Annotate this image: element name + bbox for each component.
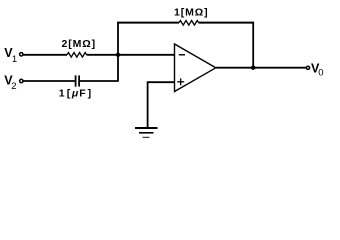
node V1 input terminal (20, 53, 23, 56)
resistor R1 zigzag (67, 53, 87, 58)
op-amp U1 minus sign (179, 54, 185, 56)
svg-text:1: 1 (12, 54, 17, 65)
wire riser node A up to feedback and down to capacitor (117, 23, 119, 82)
node output junction dot (251, 66, 255, 70)
wire op-amp output to V0 terminal (216, 67, 306, 69)
svg-text:0: 0 (318, 68, 323, 79)
node V0 label (311, 61, 324, 78)
svg-text:1: 1 (59, 88, 65, 100)
capacitor C1 left plate (75, 75, 77, 86)
node V1 label (4, 46, 17, 65)
wire feedback right vertical down to output (252, 22, 254, 68)
node A junction dot (116, 53, 120, 57)
op-amp U1 plus sign (177, 78, 184, 85)
node V2 input terminal (20, 79, 23, 82)
node V0 output terminal (306, 66, 309, 69)
capacitor C1 right plate (78, 75, 80, 86)
svg-text:2[MΩ]: 2[MΩ] (62, 38, 97, 50)
svg-text:[: [ (67, 88, 71, 100)
ground symbol (135, 128, 158, 137)
op-amp U1 triangle (175, 44, 216, 92)
svg-text:1[MΩ]: 1[MΩ] (174, 7, 209, 19)
wire feedback top left segment (117, 22, 179, 24)
wire V1 to resistor R1 (23, 54, 67, 56)
wire V2 to capacitor C1 (23, 80, 75, 82)
wire capacitor C1 to riser corner (80, 80, 119, 82)
capacitor C1 value label 1[μF] (59, 88, 91, 100)
svg-text:2: 2 (11, 81, 16, 92)
wire feedback top right segment (199, 22, 254, 24)
svg-text:F: F (79, 88, 86, 100)
resistor R2 zigzag (feedback) (179, 21, 199, 26)
node V2 label (4, 73, 16, 92)
wire non-inverting input to ground (148, 82, 175, 128)
wire resistor R1 to op-amp inverting input (87, 54, 175, 56)
svg-text:]: ] (88, 88, 92, 100)
svg-text:μ: μ (71, 88, 79, 100)
